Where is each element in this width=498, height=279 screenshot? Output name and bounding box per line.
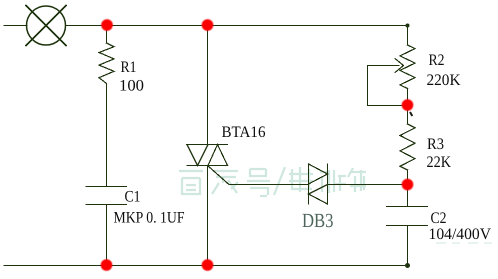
watermark row 1	[179, 167, 366, 196]
resistor R2 zigzag	[400, 45, 415, 89]
corner junction dot top-right	[406, 24, 410, 28]
wire diac to node D	[328, 184, 408, 186]
diac D1 lower triangle	[309, 185, 328, 205]
triac U1 bottom bar	[187, 165, 228, 167]
wire triac to bottom node F	[207, 166, 209, 266]
lamp X stroke 2	[26, 6, 66, 46]
svg-text:22K: 22K	[427, 154, 452, 171]
capacitor C2 top plate	[387, 206, 428, 208]
junction node A	[101, 19, 113, 31]
lamp L1 circle	[27, 6, 66, 45]
svg-text:MKP 0. 1UF: MKP 0. 1UF	[114, 210, 185, 227]
capacitor C2 bottom plate	[387, 225, 428, 227]
wire node C to R3	[407, 106, 409, 125]
svg-text:220K: 220K	[427, 72, 461, 89]
svg-text:R1: R1	[121, 59, 137, 76]
triac U1 right triangle	[208, 145, 228, 166]
R2 wiper loop wire	[368, 66, 408, 106]
diac D1 upper triangle	[309, 164, 328, 184]
capacitor C1 bottom plate	[86, 204, 127, 206]
svg-text:R2: R2	[429, 52, 445, 69]
svg-text:DB3: DB3	[302, 210, 334, 232]
wire node B down to triac	[207, 26, 209, 145]
watermark row 2 (bottom right fragment)	[436, 242, 492, 244]
junction node D	[402, 179, 414, 191]
triac U1 left triangle	[187, 145, 208, 166]
resistor R3 zigzag	[400, 124, 415, 170]
R2 wiper arrow	[368, 59, 404, 73]
wire node B to top-right corner	[208, 25, 408, 27]
lamp X stroke 1	[26, 6, 66, 46]
svg-text:100: 100	[119, 78, 144, 95]
wire R2 bottom to node C	[407, 89, 409, 106]
gate wire to diac	[229, 184, 309, 186]
wire node A to node B	[107, 25, 208, 27]
wire C1 to bottom node E	[106, 205, 108, 266]
wire corner down to R2	[407, 26, 409, 46]
junction node E	[101, 259, 113, 271]
junction node B	[202, 19, 214, 31]
wire C2 to bottom-right corner	[407, 226, 409, 266]
corner junction dot bottom-right	[405, 263, 410, 268]
svg-text:104/400V: 104/400V	[429, 226, 492, 243]
junction node C	[402, 99, 414, 111]
wire R3 to node D	[407, 170, 409, 185]
svg-text:C2: C2	[431, 210, 447, 227]
triac gate wire diagonal	[208, 166, 230, 185]
tick mark below node C	[410, 112, 412, 116]
bottom wire	[4, 265, 408, 267]
wire lamp to node A	[66, 25, 107, 27]
diac D1 left bar	[308, 164, 310, 204]
diac D1 right bar	[327, 164, 329, 204]
wire node A down to R1	[106, 26, 108, 44]
svg-text:R3: R3	[427, 136, 444, 153]
wire top left to lamp	[4, 25, 27, 27]
junction node F	[202, 259, 214, 271]
capacitor C1 top plate	[86, 186, 127, 188]
svg-text:C1: C1	[125, 189, 141, 206]
triac U1 top bar	[187, 144, 228, 146]
svg-text:BTA16: BTA16	[222, 124, 266, 141]
resistor R1 zigzag	[99, 43, 114, 84]
wire R1 to C1	[106, 84, 108, 187]
wire node D to C2	[407, 185, 409, 207]
